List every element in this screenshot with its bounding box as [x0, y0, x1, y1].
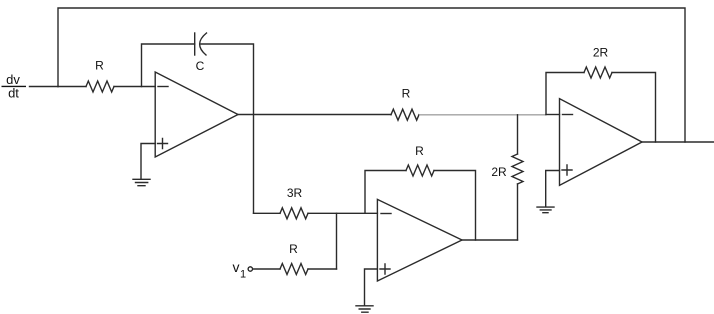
wire R1 to U1 inverting input	[114, 86, 155, 88]
wire v1 to resistor	[253, 268, 280, 270]
wire junction vertical between 3R row and v1 row	[336, 213, 338, 269]
wire gray from R to U3 inverting node	[419, 114, 546, 116]
ground (U1)	[133, 179, 150, 185]
op-amp U1	[155, 72, 238, 157]
wire U2 non-inverting input to ground	[365, 269, 378, 306]
terminal circle v1	[248, 267, 252, 271]
svg-text:R: R	[415, 144, 424, 158]
wire U3 output to right edge	[642, 141, 714, 143]
wire 2R vertical bottom lead	[517, 184, 519, 240]
U1 non-inverting pin plus	[158, 139, 168, 149]
op-amp U2	[377, 199, 462, 281]
svg-text:3R: 3R	[287, 186, 303, 200]
wire U2 output	[462, 239, 518, 241]
U2 inverting pin minus	[381, 213, 391, 215]
resistor R1	[86, 81, 114, 92]
wire capacitor feedback right branch down to output node	[201, 44, 254, 213]
wire input stub from dv/dt	[30, 86, 59, 88]
ground (U3)	[537, 207, 554, 213]
resistor 2R (vertical)	[512, 154, 523, 184]
U3 inverting pin minus	[563, 114, 573, 116]
wire U2 feedback right vertical to output	[434, 171, 476, 241]
wire U2 feedback left vertical	[365, 171, 406, 214]
svg-text:R: R	[289, 242, 298, 256]
svg-text:2R: 2R	[491, 165, 507, 179]
wire U3 feedback left vertical	[546, 73, 584, 115]
node input dv/dt label	[2, 72, 27, 101]
svg-text:C: C	[196, 59, 205, 73]
resistor R (v1)	[280, 264, 308, 275]
wire 3R to U2 inverting input	[308, 212, 377, 214]
wire 3R branch row	[254, 212, 281, 214]
svg-text:R: R	[402, 87, 411, 101]
wire top feedback from output of U3 to input node	[58, 8, 685, 142]
capacitor C plates	[194, 33, 196, 55]
wire U3 non-inverting input to ground	[546, 171, 560, 207]
svg-text:1: 1	[240, 269, 246, 281]
resistor R (middle, U1 output to U3)	[391, 109, 419, 120]
svg-text:2R: 2R	[593, 46, 609, 60]
wire U3 inverting input segment	[546, 114, 560, 116]
svg-text:R: R	[95, 59, 104, 73]
wire U3 feedback right vertical to output	[612, 73, 656, 143]
resistor 3R	[280, 208, 308, 219]
wire U1 output	[238, 114, 391, 116]
U2 non-inverting pin plus	[380, 264, 390, 274]
resistor 2R (U3 feedback)	[584, 67, 612, 78]
resistor R (U2 feedback)	[406, 165, 434, 176]
svg-text:v: v	[233, 259, 240, 275]
wire capacitor feedback left branch	[142, 44, 195, 87]
wire input to resistor R1	[58, 86, 86, 88]
svg-text:dt: dt	[8, 86, 19, 101]
U1 inverting pin minus	[158, 86, 168, 88]
op-amp U3	[560, 99, 643, 186]
wire U1 non-inverting input to ground	[141, 144, 155, 180]
ground (U2)	[356, 306, 373, 312]
U3 non-inverting pin plus	[562, 165, 572, 175]
wire 2R vertical top lead	[517, 115, 519, 154]
wire v1 resistor to junction	[308, 268, 337, 270]
